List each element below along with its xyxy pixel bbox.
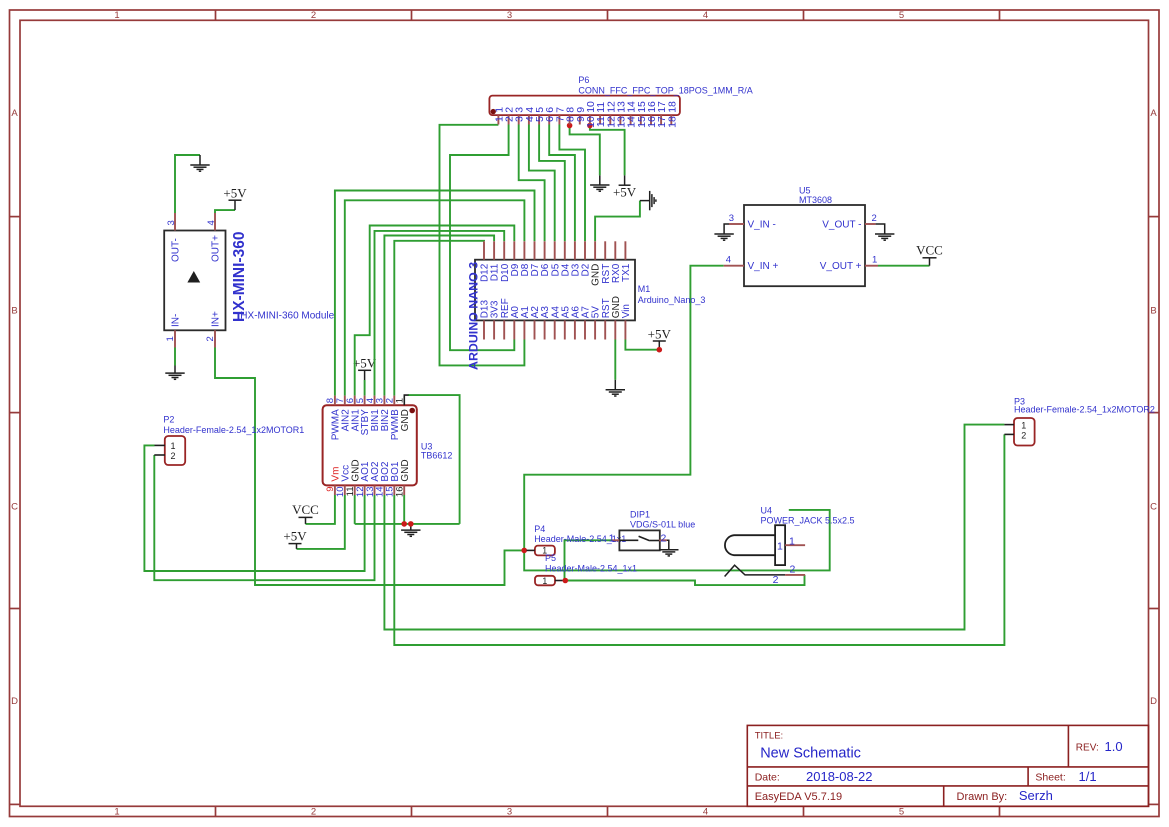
svg-text:P6: P6 [578, 75, 589, 85]
wire P6 pin1 to M1 A1 [440, 125, 525, 366]
junction [563, 578, 569, 584]
svg-text:VCC: VCC [916, 243, 943, 258]
ground [590, 175, 609, 191]
svg-text:+5V: +5V [283, 529, 307, 544]
power +5V down [619, 175, 631, 185]
svg-text:IN+: IN+ [211, 311, 222, 327]
wire P6 pin8 to ground [570, 126, 600, 176]
wire HX IN+ to P4 node [215, 348, 522, 586]
svg-text:1: 1 [114, 10, 119, 21]
svg-text:1: 1 [395, 398, 406, 403]
wire HX IN- to ground [174, 348, 176, 366]
wire P6 pin10 to +5V [590, 126, 625, 176]
svg-text:1/1: 1/1 [1079, 769, 1097, 784]
M1 pin stubs top [483, 241, 485, 259]
wire P6 pin4 to M1 D5 [529, 125, 555, 242]
svg-text:ARDUINO NANO 3: ARDUINO NANO 3 [466, 262, 480, 370]
title block [747, 725, 1148, 806]
svg-text:1: 1 [789, 535, 795, 547]
svg-text:16: 16 [395, 487, 406, 498]
svg-text:A: A [1150, 108, 1157, 119]
junction [521, 548, 527, 554]
svg-text:1.0: 1.0 [1105, 739, 1123, 754]
svg-text:P2: P2 [163, 414, 174, 424]
U5 V_IN- ground [724, 224, 729, 234]
net VCC [929, 258, 931, 266]
svg-text:C: C [11, 502, 18, 513]
U3 GND pin1 stub [404, 395, 408, 405]
svg-text:MT3608: MT3608 [799, 195, 832, 205]
wire P6 pin6 to M1 D3 [549, 125, 575, 242]
svg-text:CONN_FFC_FPC_TOP_18POS_1MM_R/A: CONN_FFC_FPC_TOP_18POS_1MM_R/A [578, 86, 752, 96]
svg-text:Date:: Date: [755, 772, 780, 784]
svg-text:2018-08-22: 2018-08-22 [806, 769, 873, 784]
wire U3 GND pin11 down [354, 495, 356, 524]
svg-text:2: 2 [170, 451, 175, 461]
svg-text:4: 4 [703, 807, 708, 818]
svg-text:3: 3 [507, 10, 512, 21]
P6 pin1 marker [491, 109, 496, 114]
P6 pin stubs [497, 115, 499, 124]
wire U4 pin1 to battery node [524, 510, 830, 571]
wire P6 pin2 to M1 A0 [450, 125, 514, 351]
svg-text:U5: U5 [799, 185, 811, 195]
svg-text:1: 1 [542, 576, 547, 586]
svg-text:V_IN -: V_IN - [748, 219, 776, 230]
module U2 HX-MINI-360 [164, 231, 225, 331]
svg-text:Sheet:: Sheet: [1035, 772, 1065, 784]
svg-text:HX-MINI-360: HX-MINI-360 [231, 232, 248, 322]
U3 pin stubs top [334, 396, 336, 406]
svg-text:GND: GND [400, 459, 411, 481]
HX arrow symbol [187, 271, 200, 283]
svg-text:1: 1 [165, 336, 176, 341]
svg-text:1: 1 [170, 441, 175, 451]
svg-text:5: 5 [899, 10, 904, 21]
svg-text:2: 2 [311, 10, 316, 21]
svg-text:18: 18 [666, 116, 678, 128]
svg-text:P5: P5 [545, 553, 556, 563]
svg-text:VDG/S-01L blue: VDG/S-01L blue [630, 520, 695, 530]
connector P6 [489, 96, 680, 116]
svg-text:TB6612: TB6612 [421, 451, 453, 461]
wire P6 pin5 to M1 D4 [539, 125, 565, 242]
power +5V [658, 341, 660, 350]
U5 pin stubs [729, 223, 744, 225]
svg-text:4: 4 [206, 220, 217, 225]
svg-text:B: B [11, 306, 17, 317]
header P5 [535, 576, 555, 586]
wire U3 Vm to VCC [306, 495, 335, 524]
svg-text:4: 4 [703, 10, 708, 21]
junction [587, 123, 593, 129]
ground [606, 380, 625, 396]
wire U5 V_OUT+ to VCC [878, 265, 930, 267]
svg-text:2: 2 [311, 807, 316, 818]
svg-text:B: B [1150, 306, 1156, 317]
wire P6 pin3 to M1 D6 [519, 125, 545, 242]
svg-text:GND: GND [400, 409, 411, 431]
wire DIP1 pin1 to P5 node [565, 540, 612, 580]
header P4 [535, 546, 555, 556]
svg-text:18: 18 [666, 101, 678, 113]
svg-text:1: 1 [872, 255, 877, 266]
switch DIP1 [619, 530, 659, 550]
ic U3 TB6612 [323, 405, 417, 485]
svg-text:REV:: REV: [1076, 743, 1099, 754]
wire U3 BIN1 to M1 D10 [375, 231, 505, 396]
wire HX OUT+ to +5V [215, 210, 235, 213]
svg-text:P4: P4 [534, 524, 545, 534]
svg-text:Header-Female-2.54_1x2MOTOR1: Header-Female-2.54_1x2MOTOR1 [163, 425, 304, 435]
svg-text:TX1: TX1 [621, 263, 632, 282]
svg-text:2: 2 [205, 336, 216, 341]
svg-text:OUT-: OUT- [171, 238, 182, 262]
wire M1 Vin to +5V node [625, 340, 659, 350]
ic U5 MT3608 [744, 205, 865, 286]
wire U3 GND pin16 down [403, 495, 405, 524]
svg-text:1: 1 [114, 807, 119, 818]
svg-text:Drawn By:: Drawn By: [957, 791, 1008, 803]
ground right [640, 191, 656, 210]
DIP1 ground [667, 540, 669, 549]
svg-text:+5V: +5V [613, 184, 637, 199]
junction [567, 123, 573, 129]
wire M1 GND top to ground right [595, 201, 640, 242]
U3 pin stubs bottom [334, 485, 336, 495]
svg-text:3: 3 [507, 807, 512, 818]
svg-text:M1: M1 [638, 284, 651, 294]
header P2 [165, 436, 185, 465]
wire HX OUT- to ground [175, 155, 200, 213]
ground [165, 366, 184, 380]
DIP1 pin stubs [612, 539, 620, 541]
U5 V_OUT- ground [876, 224, 885, 234]
svg-text:Vin: Vin [621, 304, 632, 318]
power +5V [364, 370, 366, 380]
svg-text:POWER_JACK 5.5x2.5: POWER_JACK 5.5x2.5 [761, 516, 855, 526]
svg-text:1: 1 [1021, 421, 1026, 431]
svg-text:2: 2 [872, 213, 877, 224]
svg-text:2: 2 [790, 563, 796, 575]
ground [401, 524, 420, 536]
U3 pin1 marker [409, 408, 415, 414]
svg-text:D: D [1150, 696, 1157, 707]
svg-text:1: 1 [609, 532, 615, 544]
svg-text:3: 3 [166, 220, 177, 225]
svg-text:C: C [1150, 502, 1157, 513]
svg-text:DIP1: DIP1 [630, 509, 650, 519]
junction [401, 521, 407, 527]
header P3 [1014, 418, 1035, 446]
wire U3 STBY to +5V [364, 380, 366, 396]
svg-text:1: 1 [777, 541, 783, 553]
svg-text:HX-MINI-360 Module: HX-MINI-360 Module [240, 311, 334, 322]
wire U3 AIN2 to M1 D8 [345, 200, 525, 395]
svg-text:+5V: +5V [353, 355, 377, 370]
net VCC [305, 517, 307, 524]
wire P2 pin1 to U3 AO1 [144, 445, 364, 571]
wire U3 Vcc to +5V [297, 495, 345, 549]
svg-text:2: 2 [661, 532, 667, 544]
svg-text:5: 5 [899, 807, 904, 818]
junction [657, 347, 663, 353]
wire U3 GND pin1 loop [408, 395, 460, 524]
svg-text:4: 4 [726, 255, 731, 266]
svg-text:U4: U4 [761, 505, 773, 515]
svg-text:3: 3 [729, 213, 734, 224]
wire M1 GND bottom to ground [614, 340, 616, 380]
U4 pin stubs [785, 544, 805, 546]
power +5V [234, 200, 236, 210]
wire P2 pin2 to U3 AO2 [154, 455, 374, 580]
wire U3 PWMA to M1 D7 [335, 191, 535, 396]
svg-text:D: D [11, 696, 18, 707]
wire P6 pin7 to M1 D2 [559, 125, 585, 242]
wire U3 BO1 to P3 pin2 [394, 434, 1004, 645]
wire U3 BIN2 to M1 D11 [384, 236, 494, 396]
svg-text:TITLE:: TITLE: [755, 731, 784, 742]
svg-text:Arduino_Nano_3: Arduino_Nano_3 [638, 295, 706, 305]
mcu M1 Arduino Nano 3 [475, 260, 635, 321]
jack U4 POWER_JACK [725, 525, 786, 576]
svg-text:IN-: IN- [171, 314, 182, 327]
svg-text:V_OUT +: V_OUT + [820, 261, 862, 272]
wire U5 V_IN+ to battery node [524, 266, 724, 551]
svg-text:New Schematic: New Schematic [760, 746, 861, 762]
svg-text:Serzh: Serzh [1019, 788, 1053, 803]
ground [190, 155, 209, 171]
svg-text:OUT+: OUT+ [211, 235, 222, 262]
svg-text:V_IN +: V_IN + [748, 261, 779, 272]
HX pin stubs [174, 213, 176, 231]
wire P5 node to U4 pin2 [565, 575, 804, 585]
svg-text:+5V: +5V [223, 186, 247, 201]
wire U3 AIN1 to M1 D9 [355, 226, 515, 396]
svg-text:Header-Female-2.54_1x2MOTOR2: Header-Female-2.54_1x2MOTOR2 [1014, 405, 1155, 415]
power +5V [296, 544, 298, 549]
svg-text:2: 2 [1021, 430, 1026, 440]
svg-text:Header-Male-2.54_1x1: Header-Male-2.54_1x1 [545, 563, 637, 573]
svg-text:EasyEDA V5.7.19: EasyEDA V5.7.19 [755, 791, 842, 803]
svg-text:+5V: +5V [648, 326, 672, 341]
wire U3 BO2 to P3 pin1 [384, 425, 1004, 630]
svg-text:2: 2 [773, 574, 779, 586]
M1 pin stubs bottom [483, 320, 485, 339]
svg-text:V_OUT -: V_OUT - [822, 219, 861, 230]
svg-text:VCC: VCC [292, 502, 319, 517]
wire GND bus under U3 [355, 523, 460, 525]
wire U3 PWMB to M1 D12 [394, 241, 484, 396]
svg-text:A: A [11, 108, 18, 119]
